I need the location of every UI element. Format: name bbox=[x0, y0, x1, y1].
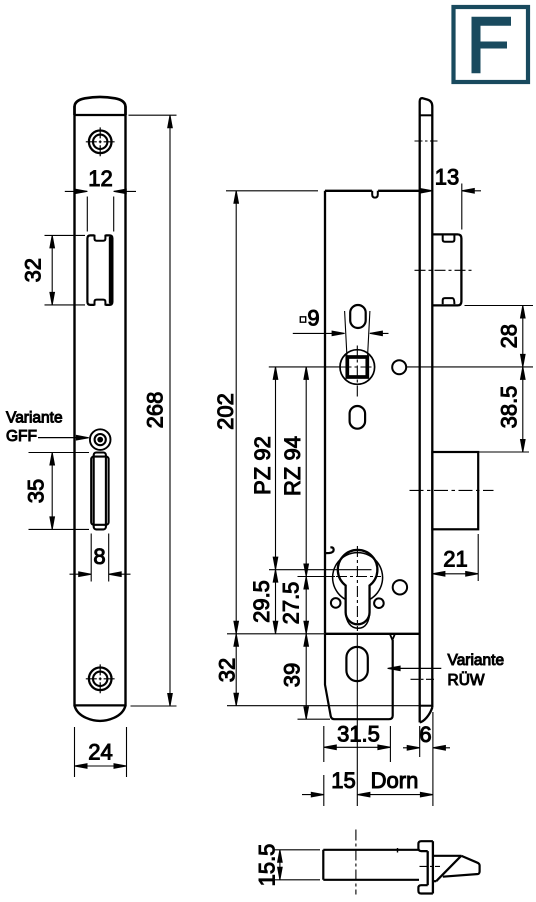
screw hole right bbox=[393, 580, 407, 594]
screw hole top bbox=[86, 127, 115, 156]
svg-text:GFF: GFF bbox=[6, 428, 37, 445]
dimension 32 middle view bbox=[215, 634, 240, 706]
dimension 39 bbox=[279, 634, 308, 719]
dimension PZ 92 bbox=[250, 367, 278, 570]
svg-text:9: 9 bbox=[307, 306, 319, 331]
svg-text:13: 13 bbox=[435, 165, 459, 190]
case bottom extension line left bbox=[227, 633, 324, 635]
screw centerline mark top bbox=[415, 140, 438, 142]
dimension 27.5 bbox=[279, 577, 309, 634]
screw hole bottom bbox=[86, 664, 115, 693]
dimension 268 bbox=[129, 115, 177, 706]
dimension 15 Dorn bbox=[302, 768, 433, 806]
svg-text:12: 12 bbox=[88, 166, 112, 191]
latch window slot in faceplate bbox=[87, 235, 112, 306]
Variante RUEW label and leader arrow bbox=[388, 652, 504, 689]
svg-text:39: 39 bbox=[279, 663, 304, 687]
svg-text:15.5: 15.5 bbox=[254, 844, 279, 887]
svg-text:29.5: 29.5 bbox=[249, 580, 274, 623]
dimension 202 bbox=[213, 191, 318, 634]
small hole right of hub bbox=[392, 360, 406, 374]
bottom edge V notch bbox=[390, 634, 395, 640]
svg-text:38.5: 38.5 bbox=[496, 386, 521, 429]
hub centerline extension right bbox=[406, 366, 533, 368]
RZ center extension line bbox=[298, 576, 336, 578]
dimension 13 bbox=[420, 165, 481, 230]
cylinder screw hole middle bbox=[374, 598, 384, 608]
dimension 12 bbox=[65, 166, 136, 232]
latch bottom extension line bbox=[465, 305, 534, 307]
bottom view faceplate bar bbox=[418, 841, 440, 893]
swing bolt 21mm side view bbox=[410, 452, 530, 529]
top edge tick bbox=[397, 848, 399, 853]
svg-text:35: 35 bbox=[23, 479, 48, 503]
faceplate side strip bbox=[411, 98, 438, 722]
top edge notch bbox=[372, 191, 378, 198]
svg-text:8: 8 bbox=[93, 544, 105, 569]
svg-text:27.5: 27.5 bbox=[279, 582, 304, 625]
dimension 6 bbox=[403, 712, 450, 806]
hub centerline extension left bbox=[269, 366, 340, 368]
svg-text:Dorn: Dorn bbox=[371, 768, 419, 793]
bottom view case outline bbox=[323, 830, 419, 895]
dimension 32 left view bbox=[21, 235, 86, 305]
GFF screw hole bbox=[90, 429, 111, 450]
svg-text:268: 268 bbox=[143, 392, 168, 429]
oval hole above hub bbox=[350, 305, 366, 328]
oval hole below hub bbox=[350, 406, 366, 429]
svg-text:RÜW: RÜW bbox=[448, 671, 485, 689]
lower box outline bbox=[325, 634, 395, 719]
svg-text:31.5: 31.5 bbox=[337, 722, 380, 747]
dimension 35 bbox=[23, 453, 89, 530]
PZ center extension line bbox=[269, 569, 372, 571]
svg-text:15: 15 bbox=[331, 768, 355, 793]
faceplate front view outline bbox=[75, 97, 126, 721]
svg-text:32: 32 bbox=[21, 258, 46, 282]
dimension RZ 94 bbox=[280, 367, 309, 577]
spring hook on left edge bbox=[325, 547, 334, 553]
dimension 31.5 bbox=[324, 722, 391, 763]
PZ euro profile cylinder hole bbox=[333, 546, 383, 631]
svg-text:32: 32 bbox=[215, 658, 240, 682]
svg-text:24: 24 bbox=[88, 740, 112, 765]
follower hub square 9mm with circle bbox=[340, 346, 375, 400]
lower box slot bbox=[346, 647, 367, 681]
dimension 38.5 bbox=[496, 367, 525, 452]
svg-text:28: 28 bbox=[496, 324, 521, 348]
F logo box bbox=[454, 7, 529, 82]
svg-text:Variante: Variante bbox=[6, 409, 63, 426]
dimension 29.5 bbox=[249, 570, 278, 634]
RZ round cylinder variant circle bbox=[333, 553, 383, 600]
svg-text:PZ 92: PZ 92 bbox=[250, 436, 275, 495]
extension line y=705.7 bbox=[227, 705, 420, 707]
box bottom extension line bbox=[298, 718, 331, 720]
dimension square 9 bbox=[293, 306, 389, 356]
svg-text:202: 202 bbox=[213, 393, 238, 430]
Variante GFF label and leader arrow bbox=[6, 409, 89, 445]
dimension 21 bbox=[432, 534, 478, 581]
cylinder screw hole left bbox=[331, 598, 341, 608]
screw centerline mark bottom bbox=[411, 678, 437, 680]
svg-text:RZ 94: RZ 94 bbox=[280, 436, 305, 496]
svg-text:Variante: Variante bbox=[448, 652, 505, 669]
lock vertical centerline lower bbox=[356, 634, 358, 806]
svg-text:6: 6 bbox=[419, 722, 431, 747]
lower slot 8x35 in faceplate bbox=[91, 453, 108, 530]
dimension 24 bbox=[75, 727, 127, 777]
dimension 15.5 bbox=[254, 844, 320, 887]
RZ variant under-stem arc bbox=[346, 612, 370, 628]
svg-text:21: 21 bbox=[443, 547, 467, 572]
dimension 28 bbox=[496, 306, 525, 367]
dimension 8 bbox=[70, 534, 131, 582]
lock case outline side view bbox=[325, 191, 420, 634]
centerline bbox=[355, 830, 357, 895]
latch bolt side view bbox=[415, 234, 475, 305]
bottom view latch wedge bbox=[433, 856, 480, 881]
